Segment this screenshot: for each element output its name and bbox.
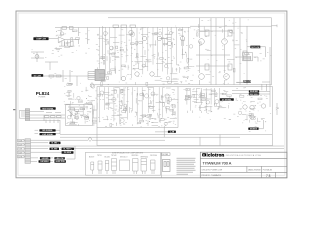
svg-text:LIM HIGH: LIM HIGH xyxy=(40,161,49,163)
svg-text:CI-6B: CI-6B xyxy=(18,152,22,154)
svg-text:LINK LOW: LINK LOW xyxy=(243,81,252,83)
svg-text:IRFP240: IRFP240 xyxy=(132,155,139,157)
svg-text:7 8: 7 8 xyxy=(266,174,271,178)
svg-text:IRFP9240: IRFP9240 xyxy=(141,157,149,159)
svg-text:TIP31: TIP31 xyxy=(97,155,102,157)
svg-text:POWER: POWER xyxy=(39,96,46,98)
svg-text:CI-5B: CI-5B xyxy=(18,144,22,146)
svg-text:BC546: BC546 xyxy=(105,157,110,159)
svg-text:iclotron: iclotron xyxy=(207,152,225,157)
svg-text:OUT LOW: OUT LOW xyxy=(251,47,260,49)
svg-text:BD139: BD139 xyxy=(89,157,94,159)
svg-text:2SC5200: 2SC5200 xyxy=(150,155,157,157)
svg-text:OL MID: OL MID xyxy=(51,149,58,151)
svg-text:PROJETO: T.RAMAZINI: PROJETO: T.RAMAZINI xyxy=(202,174,222,177)
svg-text:DATA: 29/09/08: DATA: 29/09/08 xyxy=(248,169,261,172)
svg-text:IDENTIFICACAO DOS COMPONENTES: IDENTIFICACAO DOS COMPONENTES xyxy=(112,151,144,154)
svg-text:CIRCUITO POWER LOW: CIRCUITO POWER LOW xyxy=(202,170,223,172)
svg-text:MID SIGNAL: MID SIGNAL xyxy=(42,129,53,132)
svg-text:SIGMOS: SIGMOS xyxy=(250,129,258,131)
svg-text:HIGH SIGNAL: HIGH SIGNAL xyxy=(42,107,54,110)
svg-text:TITANIUM 700 A: TITANIUM 700 A xyxy=(203,161,232,166)
svg-text:OL HIGH: OL HIGH xyxy=(64,152,72,154)
svg-text:FOLHA: A3: FOLHA: A3 xyxy=(263,169,272,172)
svg-text:INLE HIGH: INLE HIGH xyxy=(250,94,260,96)
svg-text:INDUSTRIA ELETRONICA LTDA: INDUSTRIA ELETRONICA LTDA xyxy=(226,154,262,157)
svg-text:+LAB: +LAB xyxy=(170,131,175,134)
svg-text:DC LOW: DC LOW xyxy=(34,75,41,77)
svg-text:TIP142: TIP142 xyxy=(111,155,117,157)
svg-text:COMP LOW: COMP LOW xyxy=(36,39,46,41)
svg-text:LIM MID: LIM MID xyxy=(42,158,49,160)
svg-text:LOW SIGNAL: LOW SIGNAL xyxy=(42,133,54,136)
svg-text:PL824: PL824 xyxy=(36,91,50,96)
svg-text:MODULO: MODULO xyxy=(120,157,128,159)
svg-text:OL MID +: OL MID + xyxy=(51,143,59,145)
svg-text:DC SIGNAL: DC SIGNAL xyxy=(222,98,233,101)
svg-text:NOTAS: NOTAS xyxy=(162,153,169,156)
svg-text:OL HIGH +: OL HIGH + xyxy=(63,149,72,151)
svg-text:LIM LOW: LIM LOW xyxy=(56,158,64,160)
svg-text:+LED TRIG: +LED TRIG xyxy=(55,161,65,163)
